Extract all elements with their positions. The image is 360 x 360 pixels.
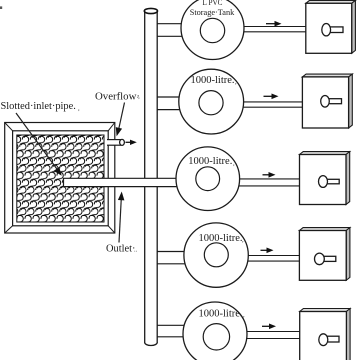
branch pipe row5 xyxy=(157,325,215,337)
tap feed pipe row5 xyxy=(215,332,301,339)
tap 3 xyxy=(327,179,340,184)
storage tank 1 xyxy=(181,0,244,60)
svg-text:Slotted·inlet·pipe.: Slotted·inlet·pipe. xyxy=(1,101,76,112)
filter box outer frame xyxy=(5,123,115,234)
tank 1 inner circle xyxy=(200,18,224,42)
svg-text:L PVC: L PVC xyxy=(203,0,223,7)
edge artifact mark top-left xyxy=(0,6,2,9)
tap unit 1 xyxy=(306,0,356,53)
branch pipe row1 xyxy=(157,24,212,37)
tap feed pipe row3 xyxy=(208,179,300,186)
svg-text:1000-litre.: 1000-litre. xyxy=(199,308,243,319)
pointer arrow for inlet label xyxy=(16,113,62,176)
tap unit 3 xyxy=(300,152,350,205)
storage tank 4 xyxy=(184,223,248,287)
filter frame corner mitres xyxy=(5,123,115,234)
tank 5 inner circle xyxy=(203,324,229,350)
tap unit 4 xyxy=(299,228,350,281)
branch pipe row2 xyxy=(157,97,211,110)
flow arrow row4 xyxy=(261,248,274,254)
outlet pipe from filter xyxy=(64,178,209,186)
tank 3 inner circle xyxy=(196,167,220,191)
storage tank 3 xyxy=(176,147,240,211)
tap feed pipe row2 xyxy=(211,102,303,107)
main riser pipe xyxy=(144,8,157,345)
tap 2 xyxy=(329,99,342,104)
tank 2 inner circle xyxy=(199,91,223,115)
flow arrow row2 xyxy=(264,94,279,100)
pointer arrow for outlet label xyxy=(118,192,125,243)
tap unit 2 xyxy=(302,74,352,128)
tap feed pipe row4 xyxy=(216,256,300,262)
tap feed pipe row1 xyxy=(213,27,307,32)
tap 4 xyxy=(323,256,335,261)
svg-text:1000-litre.: 1000-litre. xyxy=(188,156,232,167)
svg-text:Storage·Tank: Storage·Tank xyxy=(190,8,235,17)
filter box inner frame xyxy=(13,131,109,226)
svg-text:Overflow·: Overflow· xyxy=(95,91,140,103)
svg-text:.,: ., xyxy=(137,93,141,100)
flow arrow row1 xyxy=(266,21,282,27)
storage tank 5 xyxy=(183,302,247,360)
svg-text:..: .. xyxy=(134,247,138,254)
svg-text:1000-litre.: 1000-litre. xyxy=(199,233,243,244)
svg-text:1000-litre.: 1000-litre. xyxy=(191,75,235,86)
svg-text:Outlet·: Outlet· xyxy=(106,243,135,254)
tank 4 inner circle xyxy=(204,243,228,267)
tap unit 5 xyxy=(300,309,350,360)
overflow arrow xyxy=(126,140,137,145)
branch pipe row4 xyxy=(157,252,216,264)
overflow pipe xyxy=(107,139,124,145)
flow arrow row3 xyxy=(263,172,276,178)
flow arrow row5 xyxy=(262,324,276,330)
storage tank 2 xyxy=(179,69,244,134)
tap 5 xyxy=(327,336,339,342)
pointer arrow for overflow label xyxy=(116,103,125,137)
filter media hatch xyxy=(17,135,104,222)
tap 1 xyxy=(330,27,343,33)
